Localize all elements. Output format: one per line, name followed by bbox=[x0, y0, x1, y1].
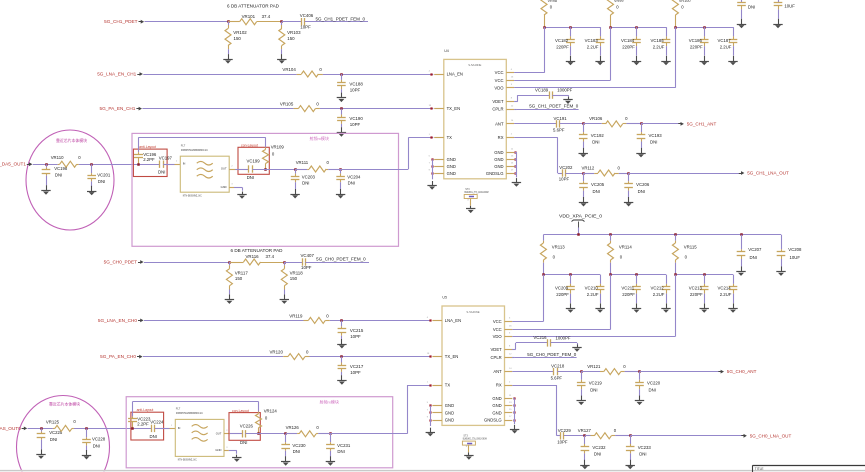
svg-text:靠近芯片本体模块: 靠近芯片本体模块 bbox=[56, 138, 87, 143]
svg-text:10PF: 10PF bbox=[557, 440, 568, 445]
svg-text:anti-Layout: anti-Layout bbox=[139, 145, 156, 149]
ground below VR117 bbox=[225, 294, 234, 304]
svg-text:37.4: 37.4 bbox=[266, 254, 275, 259]
svg-text:VC215: VC215 bbox=[350, 328, 364, 333]
svg-text:VDD_XPA_PCIE_0: VDD_XPA_PCIE_0 bbox=[559, 213, 603, 218]
svg-text:10PF: 10PF bbox=[350, 370, 361, 375]
net label 5G_DAS_OUT0 bbox=[0, 426, 27, 431]
svg-text:2.2UF: 2.2UF bbox=[587, 45, 599, 50]
capacitor VC219 DNI shunt bbox=[577, 372, 603, 396]
ground below VC212 bbox=[661, 303, 670, 313]
svg-text:VC216: VC216 bbox=[533, 335, 547, 340]
guidance ellipse top (keep close to chip) bbox=[26, 130, 114, 230]
capacitor VC209 220PF bbox=[555, 275, 575, 303]
pin ANT (right) of U5 bbox=[493, 368, 512, 374]
capacitor VC218 5.6PF series bbox=[551, 364, 565, 381]
ground below VR103 bbox=[277, 54, 286, 64]
wire VDO to rail (top IC) bbox=[514, 27, 675, 88]
capacitor VC233 DNI shunt bbox=[626, 436, 652, 460]
junction bbox=[284, 432, 287, 435]
sheet bottom border bbox=[0, 471, 865, 472]
svg-text:VC211: VC211 bbox=[621, 285, 634, 290]
resistor VR126 0 bbox=[286, 425, 320, 437]
wire filter GND pin to ground bbox=[234, 187, 243, 190]
svg-text:DNI: DNI bbox=[93, 443, 100, 448]
svg-text:VC210: VC210 bbox=[585, 285, 599, 290]
junction bbox=[340, 73, 343, 76]
svg-text:VC217: VC217 bbox=[350, 364, 364, 369]
svg-text:2.2UF: 2.2UF bbox=[720, 45, 732, 50]
ground below VC205 bbox=[579, 197, 588, 207]
svg-text:VC231: VC231 bbox=[337, 443, 351, 448]
ground below VC203 bbox=[290, 189, 299, 199]
pin CPLR (right) of U5 bbox=[491, 354, 513, 360]
pin GND (left) of U4 bbox=[429, 170, 456, 176]
svg-text:VC205: VC205 bbox=[591, 182, 605, 187]
svg-text:DNI: DNI bbox=[592, 140, 599, 145]
svg-text:VR115: VR115 bbox=[684, 245, 697, 250]
wire rail under VR113 bbox=[543, 274, 600, 276]
wire to filter bbox=[163, 164, 180, 166]
resistor VR112 0 bbox=[582, 165, 621, 176]
pin connect square LNA_EN bbox=[429, 319, 431, 321]
svg-text:DNI: DNI bbox=[98, 179, 105, 184]
svg-text:DNI: DNI bbox=[348, 181, 355, 186]
wire rail under VR114 bbox=[611, 274, 667, 276]
svg-text:VR125: VR125 bbox=[46, 419, 60, 424]
svg-text:VC206: VC206 bbox=[636, 182, 650, 187]
junction bbox=[329, 432, 332, 435]
pin GND of FLT bbox=[229, 187, 234, 189]
wire left GND bus of U5 bbox=[430, 406, 432, 426]
svg-text:DNI: DNI bbox=[649, 387, 656, 392]
svg-text:10UF: 10UF bbox=[784, 4, 795, 9]
svg-text:OUT: OUT bbox=[221, 167, 227, 171]
svg-text:S-5A49NE: S-5A49NE bbox=[468, 63, 481, 67]
resistor VR100 0 (cut at top edge) bbox=[672, 0, 690, 27]
wire rail under VR100 bbox=[675, 27, 733, 29]
pin TX (left) of U4 bbox=[429, 134, 453, 140]
svg-text:GND: GND bbox=[447, 164, 456, 169]
net label 5G_CH1_PDET_FEM_0 at attenuator output bbox=[305, 16, 368, 21]
wire to output 5G_CH1_ANT bbox=[641, 123, 679, 125]
svg-text:VR120: VR120 bbox=[270, 350, 284, 355]
junction bbox=[543, 26, 572, 29]
wire to IC TX_EN pin bbox=[320, 108, 433, 110]
wire to IC TX pin bbox=[330, 385, 431, 434]
pin GND (left) of U4 bbox=[429, 156, 456, 162]
net label 5G_DA5_OUT1 bbox=[0, 162, 32, 167]
ground below VC214 bbox=[728, 303, 737, 313]
ground below VC215 bbox=[337, 339, 346, 349]
wire rail under VR115 bbox=[675, 274, 733, 276]
svg-text:VC186: VC186 bbox=[689, 38, 703, 43]
svg-text:VR105: VR105 bbox=[280, 102, 294, 107]
pin VDO (right) of U5 bbox=[493, 333, 513, 339]
svg-text:VR117: VR117 bbox=[235, 270, 249, 275]
ground below VC213 bbox=[700, 303, 709, 313]
junction bbox=[137, 163, 140, 166]
svg-text:VCC: VCC bbox=[495, 70, 504, 75]
ground below VC220 bbox=[635, 396, 644, 406]
svg-text:5G_DAS_OUT0: 5G_DAS_OUT0 bbox=[0, 426, 21, 431]
svg-text:KTN-5605NNZ_NC: KTN-5605NNZ_NC bbox=[178, 458, 197, 462]
svg-text:ST3: ST3 bbox=[463, 435, 468, 438]
wire bbox=[625, 371, 640, 373]
svg-text:DNI: DNI bbox=[302, 181, 309, 186]
capacitor VC228 DNI shunt bbox=[82, 428, 106, 451]
capacitor VC188 10PF shunt bbox=[337, 74, 363, 93]
svg-text:VC232: VC232 bbox=[592, 445, 606, 450]
pin OUT of FLT bbox=[224, 433, 230, 435]
svg-text:GND: GND bbox=[445, 410, 454, 415]
svg-text:VC197: VC197 bbox=[159, 155, 173, 160]
resistor VR101 37.4 bbox=[228, 14, 282, 25]
svg-text:220PF: 220PF bbox=[622, 292, 635, 297]
junction bbox=[339, 168, 342, 171]
wire PDET to attenuator bbox=[144, 262, 229, 264]
ground below VC209 bbox=[566, 303, 575, 313]
svg-text:150: 150 bbox=[290, 276, 298, 281]
svg-text:220PF: 220PF bbox=[690, 45, 703, 50]
wire to IC TX pin bbox=[341, 137, 434, 169]
svg-text:CPLR: CPLR bbox=[491, 355, 502, 360]
svg-text:VR126: VR126 bbox=[286, 425, 300, 430]
svg-text:VC213: VC213 bbox=[689, 285, 703, 290]
junction bbox=[257, 432, 260, 435]
junction bbox=[45, 163, 48, 166]
wire RF input bbox=[28, 428, 53, 430]
resistor VR125 0 bbox=[46, 419, 77, 431]
svg-text:VR101: VR101 bbox=[242, 14, 256, 19]
svg-text:VR121: VR121 bbox=[587, 364, 601, 369]
ground below VC201 bbox=[87, 186, 96, 196]
resistor VR113 0 bbox=[540, 235, 565, 275]
svg-text:GND: GND bbox=[221, 185, 227, 189]
svg-text:VC229: VC229 bbox=[558, 428, 572, 433]
svg-text:2.2PF: 2.2PF bbox=[137, 422, 149, 427]
svg-text:10UF: 10UF bbox=[790, 255, 801, 260]
ground below jumper of U4 bbox=[466, 206, 475, 213]
net label 5G_CH0_PDET_FEM_0 at attenuator output bbox=[305, 257, 369, 263]
pin GND (right) of U4 bbox=[494, 156, 514, 162]
svg-text:VC220: VC220 bbox=[647, 381, 661, 386]
pin connect square TX bbox=[430, 136, 432, 138]
svg-text:GNDSLG: GNDSLG bbox=[484, 418, 502, 423]
wire bbox=[566, 173, 584, 175]
junction bbox=[542, 273, 572, 276]
svg-text:VDO: VDO bbox=[493, 334, 503, 339]
svg-text:VC184: VC184 bbox=[621, 38, 635, 43]
svg-text:VC208: VC208 bbox=[788, 247, 802, 252]
pin GND (left) of U5 bbox=[427, 402, 454, 408]
svg-text:VC189: VC189 bbox=[535, 87, 549, 92]
svg-text:150: 150 bbox=[287, 36, 295, 41]
ground below VC219 bbox=[577, 396, 586, 406]
svg-text:GND: GND bbox=[447, 157, 456, 162]
svg-text:anti-Layout: anti-Layout bbox=[137, 408, 154, 412]
wire right GND bus of U4 bbox=[515, 152, 517, 177]
svg-text:6 DB ATTENUATOR PAD: 6 DB ATTENUATOR PAD bbox=[227, 3, 279, 8]
junction bbox=[609, 273, 638, 276]
ferrite bead jumper below U5 bbox=[462, 435, 486, 453]
wire to IC TX_EN pin bbox=[310, 356, 432, 358]
pin CPLR (right) of U4 bbox=[492, 105, 514, 111]
wire VCC2 to rail (top IC) bbox=[514, 27, 610, 80]
ground below VC230 bbox=[281, 456, 290, 466]
svg-text:VC202: VC202 bbox=[559, 165, 573, 170]
wire to series cap bbox=[282, 21, 302, 23]
svg-text:GND: GND bbox=[447, 171, 456, 176]
wire VC216 to ground bbox=[551, 343, 578, 345]
wire bypass bbox=[133, 401, 259, 403]
ground after VC189 bbox=[563, 97, 572, 104]
svg-text:VR113: VR113 bbox=[552, 245, 565, 250]
wire VCC1 to rail (top IC) bbox=[514, 27, 545, 73]
wire to output 5G_CH0_ANT bbox=[640, 371, 720, 373]
svg-text:5G_CH0_ANT: 5G_CH0_ANT bbox=[727, 369, 757, 374]
anti-layout box around VC196 bbox=[133, 145, 167, 177]
svg-text:220PF: 220PF bbox=[556, 292, 569, 297]
wire LNA_EN bbox=[144, 320, 304, 322]
resistor VR118 150 bbox=[281, 262, 303, 294]
module outline box RF module bottom bbox=[126, 397, 393, 468]
capacitor VC196 2.2PF bypass bbox=[134, 137, 157, 164]
resistor VR109 0 bypass bbox=[263, 137, 285, 169]
svg-text:VR114: VR114 bbox=[619, 245, 632, 250]
capacitor VC203 DNI shunt bbox=[291, 169, 316, 189]
svg-text:GND: GND bbox=[445, 418, 454, 423]
svg-text:LNA_EN: LNA_EN bbox=[447, 72, 463, 77]
svg-text:S-5A49NE: S-5A49NE bbox=[466, 310, 479, 314]
net label 5G_CH0_PDET_FEM_0 at CPLR bbox=[512, 352, 577, 358]
svg-text:5.6PF: 5.6PF bbox=[551, 375, 563, 380]
pin GND (right) of U5 bbox=[492, 409, 512, 415]
svg-text:VR127: VR127 bbox=[578, 428, 592, 433]
svg-text:BLM18KG_(TX)_GN01-DN0M: BLM18KG_(TX)_GN01-DN0M bbox=[465, 192, 489, 194]
pin LNA_EN (left) of U4 bbox=[429, 71, 463, 77]
capacitor VC187 2.2UF bbox=[718, 27, 738, 55]
capacitor VC229 10PF series bbox=[557, 428, 571, 445]
svg-text:VCC: VCC bbox=[495, 78, 504, 83]
pin VCC (right) of U5 bbox=[493, 318, 512, 324]
capacitor 10UF bulk (cut at top edge) bbox=[774, 0, 796, 19]
pin connect square TX_EN bbox=[430, 107, 432, 109]
svg-text:DNI: DNI bbox=[247, 175, 254, 180]
svg-text:150: 150 bbox=[235, 276, 243, 281]
wire right GND bus of U5 bbox=[513, 399, 515, 425]
svg-text:VC185: VC185 bbox=[651, 38, 665, 43]
capacitor VC217 10PF shunt bbox=[338, 357, 364, 376]
ground below VC208 bbox=[776, 266, 785, 276]
junction bbox=[609, 26, 638, 29]
pin connect square TX_EN bbox=[429, 355, 431, 357]
resistor VR121 0 bbox=[581, 364, 626, 375]
svg-text:KTN-5605NNZ_NC: KTN-5605NNZ_NC bbox=[183, 193, 202, 197]
svg-text:5G_LNA_EN_CH0: 5G_LNA_EN_CH0 bbox=[98, 318, 137, 323]
resistor VR114 0 bbox=[608, 235, 633, 275]
band-pass filter FLT bbox=[171, 407, 228, 462]
svg-text:VC183: VC183 bbox=[585, 38, 599, 43]
ground below VC207 bbox=[736, 266, 745, 276]
ground below VC187 bbox=[728, 56, 737, 66]
svg-text:靠近芯片本体模块: 靠近芯片本体模块 bbox=[49, 402, 80, 407]
junction bbox=[674, 26, 706, 29]
pin RX (right) of U4 bbox=[498, 134, 514, 140]
svg-text:1000PF: 1000PF bbox=[557, 88, 572, 93]
capacitor VC197 series DNI bbox=[158, 155, 173, 174]
ground below DNI cap bbox=[737, 19, 746, 29]
svg-text:DNI: DNI bbox=[240, 440, 247, 445]
svg-text:VR112: VR112 bbox=[582, 165, 595, 170]
resistor VR110 0 bbox=[51, 155, 81, 167]
ground below VC198 bbox=[41, 185, 50, 195]
svg-text:ANT: ANT bbox=[495, 121, 504, 126]
svg-text:VR111: VR111 bbox=[296, 160, 309, 165]
svg-text:VDET: VDET bbox=[492, 99, 504, 104]
pin ANT (right) of U4 bbox=[495, 120, 514, 126]
capacitor DNI bulk (cut at top edge) bbox=[737, 0, 755, 19]
ground below VC204 bbox=[336, 189, 345, 199]
capacitor VC225 DNI shunt bbox=[37, 428, 63, 449]
ground below VC233 bbox=[626, 460, 635, 470]
svg-text:10PF: 10PF bbox=[300, 25, 311, 30]
ground below VC210 bbox=[595, 303, 604, 313]
svg-text:DNI: DNI bbox=[337, 449, 344, 454]
anti-layout box around VC223 bbox=[131, 408, 164, 440]
svg-text:VC203: VC203 bbox=[302, 174, 316, 179]
wire 5G_CH0_ANT from IC pin bbox=[512, 371, 554, 373]
wire VDET to VC189 bbox=[514, 95, 549, 101]
svg-text:DNI: DNI bbox=[55, 173, 62, 178]
svg-text:DNI: DNI bbox=[638, 189, 645, 194]
pin VCC (right) of U4 bbox=[495, 69, 514, 75]
ground below VC183 bbox=[595, 56, 604, 66]
ground below jumper of U5 bbox=[464, 452, 473, 459]
svg-text:IN: IN bbox=[178, 426, 181, 430]
svg-text:VDET: VDET bbox=[491, 347, 503, 352]
pin GND (left) of U4 bbox=[429, 163, 456, 169]
resistor VR120 0 bbox=[270, 350, 310, 360]
svg-text:5.6PF: 5.6PF bbox=[553, 128, 565, 133]
svg-text:5G_CH0_PDET: 5G_CH0_PDET bbox=[104, 260, 137, 265]
svg-text:2.2UF: 2.2UF bbox=[653, 292, 665, 297]
svg-text:DNI: DNI bbox=[593, 189, 600, 194]
ground below VC184 bbox=[632, 56, 641, 66]
svg-text:5G_CH1_ANT: 5G_CH1_ANT bbox=[687, 121, 717, 126]
svg-text:10PF: 10PF bbox=[350, 88, 361, 93]
svg-text:VR116: VR116 bbox=[246, 254, 260, 259]
svg-text:5G_PA_EN_CH1: 5G_PA_EN_CH1 bbox=[100, 106, 136, 111]
resistor VR127 0 bbox=[578, 428, 617, 439]
wire to IC LNA_EN pin bbox=[330, 320, 432, 322]
wire VC189 to ground bbox=[552, 95, 568, 97]
svg-text:2.2UF: 2.2UF bbox=[653, 45, 665, 50]
ground after VC216 bbox=[572, 345, 581, 352]
junction bbox=[131, 427, 134, 430]
con-layout box around VC226 bbox=[229, 409, 260, 440]
svg-text:VC406: VC406 bbox=[300, 13, 314, 18]
svg-text:5G_CH1_PDET: 5G_CH1_PDET bbox=[104, 19, 137, 24]
wire 5G_CH1_ANT from IC pin bbox=[514, 123, 556, 125]
svg-text:VR98: VR98 bbox=[548, 0, 558, 3]
svg-text:GND: GND bbox=[494, 157, 503, 162]
ground left of U4 bbox=[427, 181, 436, 190]
pin GND (left) of U5 bbox=[427, 416, 454, 422]
svg-text:ANT: ANT bbox=[493, 369, 502, 374]
ground at filter FLT bbox=[232, 455, 241, 462]
svg-text:GND: GND bbox=[445, 403, 454, 408]
junction bbox=[582, 172, 585, 175]
ground right of U4 bbox=[512, 178, 521, 187]
svg-text:DNI: DNI bbox=[748, 5, 755, 10]
svg-text:RX: RX bbox=[496, 383, 502, 388]
junction bbox=[227, 20, 230, 23]
capacitor VC192 DNI shunt bbox=[579, 124, 605, 148]
junction bbox=[674, 273, 706, 276]
svg-text:VR106: VR106 bbox=[589, 116, 603, 121]
svg-text:VR99: VR99 bbox=[614, 0, 624, 3]
pin GND of FLT bbox=[224, 450, 229, 452]
pin LNA_EN (left) of U5 bbox=[427, 317, 461, 323]
wire filter OUT to series cap bbox=[230, 433, 242, 435]
svg-text:VC199: VC199 bbox=[247, 159, 261, 164]
svg-text:VC212: VC212 bbox=[651, 285, 665, 290]
svg-text:VR119: VR119 bbox=[289, 314, 303, 319]
resistor VR103 150 bbox=[279, 22, 301, 54]
text attenuator pad title CH0 bbox=[231, 248, 283, 253]
junction bbox=[340, 319, 343, 322]
ground below VC231 bbox=[326, 456, 335, 466]
con-layout box around VC199 bbox=[238, 144, 269, 175]
capacitor VC207 DNI bbox=[737, 235, 762, 267]
ground below 10UF cap bbox=[773, 19, 782, 29]
svg-text:U4: U4 bbox=[444, 49, 449, 53]
pin VCC (right) of U5 bbox=[493, 326, 512, 332]
junction bbox=[340, 355, 343, 358]
capacitor VC189 1000PF bbox=[535, 87, 573, 99]
ground below VC211 bbox=[632, 303, 641, 313]
wire bbox=[619, 173, 629, 175]
svg-text:GND: GND bbox=[494, 164, 503, 169]
op-amp / RF FEM IC U4 bbox=[444, 49, 507, 179]
ground below VR102 bbox=[223, 54, 232, 64]
capacitor VC210 2.2UF bbox=[585, 275, 605, 303]
net label 5G_PA_EN_CH0 bbox=[100, 354, 142, 359]
svg-text:220PF: 220PF bbox=[556, 45, 569, 50]
wire VCC1 to rail (bottom IC) bbox=[512, 275, 543, 322]
wire left GND bus of U4 bbox=[432, 159, 434, 179]
svg-text:VCC: VCC bbox=[493, 319, 502, 324]
svg-text:1000PF: 1000PF bbox=[556, 335, 571, 340]
wire VDO to rail (bottom IC) bbox=[512, 275, 675, 337]
capacitor VC190 10PF shunt bbox=[337, 109, 363, 128]
svg-text:TITLE: TITLE bbox=[755, 467, 764, 471]
net label 5G_PA_EN_CH1 bbox=[100, 106, 142, 111]
svg-text:TX_EN: TX_EN bbox=[447, 106, 461, 111]
resistor VR124 0 bypass bbox=[256, 402, 278, 434]
svg-text:5G_CH0_LNA_OUT: 5G_CH0_LNA_OUT bbox=[750, 433, 792, 438]
svg-text:DNI: DNI bbox=[650, 140, 657, 145]
junction bbox=[340, 107, 343, 110]
svg-text:VR109: VR109 bbox=[271, 144, 285, 149]
ground below VC232 bbox=[580, 460, 589, 470]
svg-text:VC219: VC219 bbox=[589, 381, 603, 386]
pin RX (right) of U5 bbox=[496, 381, 512, 387]
svg-text:FLT: FLT bbox=[176, 407, 181, 411]
pin GND (right) of U4 bbox=[494, 163, 514, 169]
svg-text:VC187: VC187 bbox=[718, 38, 732, 43]
